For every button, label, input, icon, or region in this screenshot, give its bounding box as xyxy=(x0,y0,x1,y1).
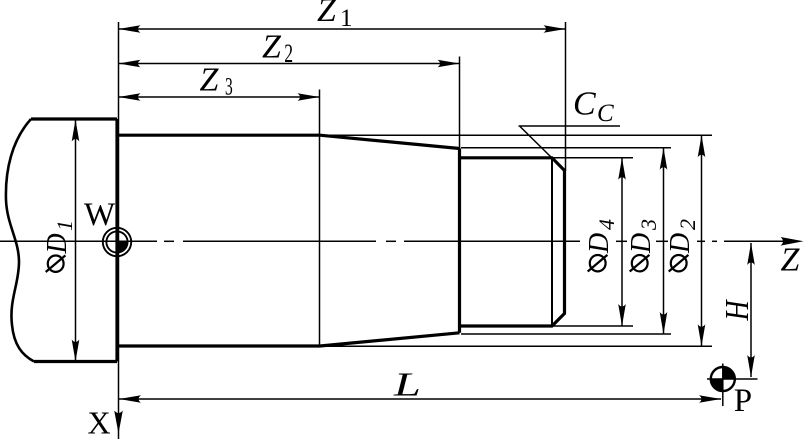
svg-text:Z: Z xyxy=(781,242,801,279)
svg-text:D: D xyxy=(42,233,73,254)
svg-text:3: 3 xyxy=(636,219,661,231)
svg-text:L: L xyxy=(393,366,421,403)
svg-text:C: C xyxy=(597,100,614,127)
svg-text:D: D xyxy=(665,233,696,254)
svg-text:P: P xyxy=(734,383,752,419)
svg-text:X: X xyxy=(88,405,111,439)
svg-text:W: W xyxy=(84,197,116,233)
svg-text:2: 2 xyxy=(675,219,700,230)
svg-text:H: H xyxy=(717,299,755,321)
svg-text:D: D xyxy=(584,233,615,254)
svg-text:4: 4 xyxy=(594,219,619,230)
svg-text:1: 1 xyxy=(340,5,353,32)
svg-text:3: 3 xyxy=(225,73,233,101)
svg-text:Z: Z xyxy=(200,62,220,99)
svg-text:2: 2 xyxy=(284,39,293,68)
svg-text:Z: Z xyxy=(262,29,282,66)
svg-text:Z: Z xyxy=(317,0,337,29)
svg-text:C: C xyxy=(573,86,596,123)
svg-text:1: 1 xyxy=(52,220,77,231)
svg-text:D: D xyxy=(626,233,657,254)
